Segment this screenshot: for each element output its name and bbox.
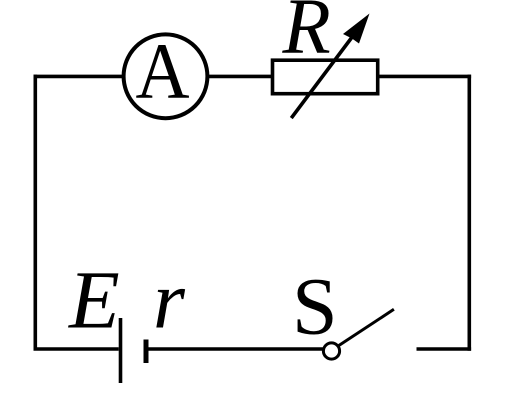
wire: bottom left segment [34, 347, 119, 351]
battery long plate [119, 318, 123, 383]
wire: top middle segment [207, 75, 274, 79]
wire: left vertical [33, 75, 37, 351]
switch S pivot circle [323, 343, 339, 359]
svg-text:A: A [136, 29, 190, 116]
battery short plate [144, 340, 149, 364]
wire: top-left horizontal segment [34, 75, 125, 79]
svg-text:E: E [68, 254, 120, 346]
switch S lever [338, 309, 394, 346]
resistor R body [273, 60, 378, 93]
ammeter U1 circle [124, 34, 208, 118]
wire: right vertical [467, 75, 471, 351]
svg-text:S: S [292, 261, 338, 352]
wire: top right segment [377, 75, 471, 79]
rheostat arrow head [343, 14, 370, 44]
rheostat arrow shaft [291, 37, 352, 119]
wire: bottom right segment [417, 347, 472, 351]
wire: bottom middle segment [148, 347, 322, 351]
svg-text:r: r [153, 255, 186, 346]
svg-text:R: R [282, 0, 331, 71]
